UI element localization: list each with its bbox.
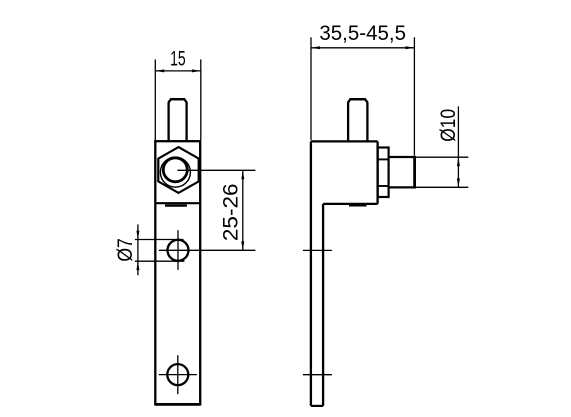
svg-text:15: 15: [170, 47, 186, 70]
dim D10 arrow top: [457, 157, 460, 166]
pin top chamfer line: [170, 98, 185, 100]
nut chamfer circle: [160, 157, 190, 187]
dim 25-26 line: [242, 170, 244, 250]
bar outline: [155, 141, 200, 404]
weld dash right: [349, 204, 367, 206]
dim 35,5-45,5 line: [311, 47, 414, 49]
pin left view: [169, 99, 187, 141]
dim D10 leaders: [416, 156, 468, 158]
hex nut: [158, 147, 198, 193]
dim 15 arrow left: [155, 69, 164, 72]
hole center ticks: [303, 249, 332, 251]
dim 35,5-45,5 arrow left: [311, 46, 320, 49]
dim 15 line: [155, 70, 201, 72]
weld dash left: [165, 204, 187, 206]
bar side view: [310, 141, 312, 406]
center cross H2: [177, 355, 179, 394]
hole H1: [168, 240, 189, 261]
svg-text:Ø10: Ø10: [437, 109, 460, 142]
threaded stub: [389, 156, 415, 158]
dim 35,5-45,5 arrow right: [406, 46, 415, 49]
svg-text:35,5-45,5: 35,5-45,5: [319, 22, 406, 45]
dim 25-26 arrow bottom: [241, 241, 244, 250]
hole H2: [167, 364, 188, 385]
dim D10 line: [457, 106, 459, 187]
dim D7 arrow top: [136, 231, 139, 240]
nut thread circle: [163, 158, 187, 182]
dim 15 extension lines: [154, 59, 156, 140]
dim D7 line: [137, 224, 139, 275]
svg-text:25-26: 25-26: [220, 183, 243, 241]
body block: [311, 140, 378, 142]
bar bottom edge: [155, 403, 200, 406]
dim 35,5-45,5 extension lines: [310, 37, 312, 140]
dim D7 tangent leaders: [135, 239, 184, 241]
pin side view: [348, 99, 367, 141]
leader hex center: [177, 169, 255, 171]
dim 25-26 arrow top: [241, 170, 244, 179]
hex collar: [378, 148, 389, 198]
svg-text:Ø7: Ø7: [114, 238, 137, 262]
hex section divider: [155, 202, 200, 204]
dim D7 arrow bottom: [136, 261, 139, 270]
center cross H1: [177, 230, 179, 270]
dim 15 arrow right: [192, 69, 201, 72]
dim D10 arrow bottom: [457, 178, 460, 187]
